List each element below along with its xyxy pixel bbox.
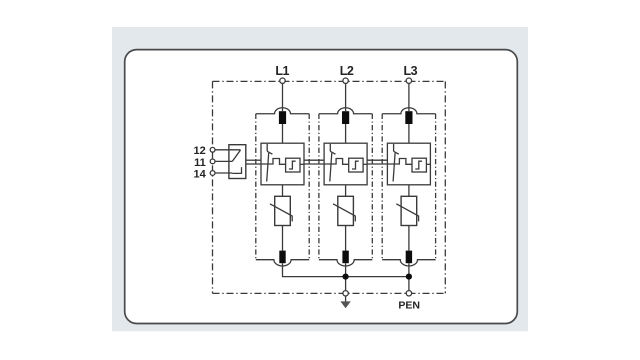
wire module 3 bottom to PEN terminal: [408, 263, 410, 290]
svg-text:L2: L2: [340, 64, 354, 78]
wire terminal 14 to contact: [215, 172, 232, 174]
plug-in terminal pin bottom, module 2: [342, 251, 348, 264]
remote signalling contact box: [229, 145, 246, 179]
terminal 14: [210, 171, 215, 176]
fixed contact 14: [232, 167, 241, 173]
linkage stub to box edge, module 2: [363, 163, 367, 165]
wire pin to disconnector box, module 2: [345, 124, 347, 143]
thermal disconnector blade, module 3: [393, 144, 399, 182]
wire L3 terminal to module 3: [408, 83, 410, 111]
linkage stub to box edge, module 3: [426, 163, 430, 165]
thermal disconnector blade, module 1: [267, 144, 273, 182]
spark gap trigger box, module 1: [286, 158, 300, 172]
wire varistor to bottom pin, module 2: [345, 226, 347, 251]
step-function glyph, module 2: [352, 161, 359, 169]
spark gap trigger box, module 3: [412, 158, 426, 172]
svg-text:12: 12: [194, 145, 206, 157]
junction node at module 2 / PE bus: [343, 274, 349, 280]
wire pin to disconnector box, module 1: [282, 124, 284, 143]
svg-text:L3: L3: [404, 64, 418, 78]
ground symbol: [340, 296, 350, 308]
spark gap trigger box, module 2: [349, 158, 363, 172]
terminal PE (ground): [343, 291, 348, 296]
mechanical linkage lines between contact and modules: [246, 160, 388, 164]
svg-text:L1: L1: [275, 64, 289, 78]
module 1 enclosure (dash-dot with plug-in bumps): [256, 108, 309, 266]
step-function glyph, module 3: [415, 161, 422, 169]
wire disconnector to varistor, module 3: [408, 185, 410, 197]
svg-text:14: 14: [194, 169, 207, 181]
terminal PEN: [406, 291, 411, 296]
plug-in terminal pin top, module 2: [342, 111, 349, 124]
device boundary enclosure (dash-dot): [213, 81, 446, 293]
plug-in terminal pin top, module 3: [405, 111, 412, 124]
wire varistor to bottom pin, module 3: [408, 226, 410, 251]
PE bus wire L2-L3: [346, 276, 409, 278]
wire pin to disconnector box, module 3: [408, 124, 410, 143]
varistor MOV2: [333, 196, 355, 225]
wire disconnector to varistor, module 2: [345, 185, 347, 197]
switching element input line with step, module 3: [387, 159, 412, 165]
junction node at module 3 / PE bus: [406, 274, 412, 280]
module 3 enclosure (dash-dot with plug-in bumps): [382, 108, 435, 266]
wire terminal 12 to contact: [215, 149, 240, 151]
varistor MOV1: [270, 196, 292, 225]
module 2 enclosure (dash-dot with plug-in bumps): [319, 108, 372, 266]
plug-in terminal pin bottom, module 3: [406, 251, 412, 264]
figure background card: [112, 27, 528, 331]
changeover contact blade 11-12: [232, 150, 240, 161]
linkage stub to box edge, module 1: [300, 163, 304, 165]
thermal disconnector blade, module 2: [330, 144, 336, 182]
wire L1 terminal to module 1: [282, 83, 284, 111]
wire module 2 bottom to ground terminal: [345, 263, 347, 290]
wire L2 terminal to module 2: [345, 83, 347, 111]
disconnector / spark-gap unit F1 (box): [261, 143, 304, 185]
wire disconnector to varistor, module 1: [282, 185, 284, 197]
varistor MOV3: [396, 196, 418, 225]
figure white panel: [125, 50, 518, 324]
terminal 11: [210, 159, 215, 164]
disconnector / spark-gap unit F3 (box): [387, 143, 430, 185]
svg-text:11: 11: [194, 157, 206, 169]
svg-text:PEN: PEN: [398, 299, 420, 311]
terminal 12: [210, 147, 215, 152]
terminal L2: [343, 78, 348, 83]
disconnector / spark-gap unit F2 (box): [324, 143, 367, 185]
switching element input line with step, module 2: [324, 159, 349, 165]
plug-in terminal pin top, module 1: [279, 111, 286, 124]
terminal L3: [406, 78, 411, 83]
switching element input line with step, module 1: [261, 159, 286, 165]
wire module 1 bottom to PE bus: [283, 263, 346, 276]
wire varistor to bottom pin, module 1: [282, 226, 284, 251]
wire terminal 11 to contact: [215, 160, 232, 162]
plug-in terminal pin bottom, module 1: [279, 251, 285, 264]
terminal L1: [280, 78, 285, 83]
step-function glyph, module 1: [289, 161, 296, 169]
